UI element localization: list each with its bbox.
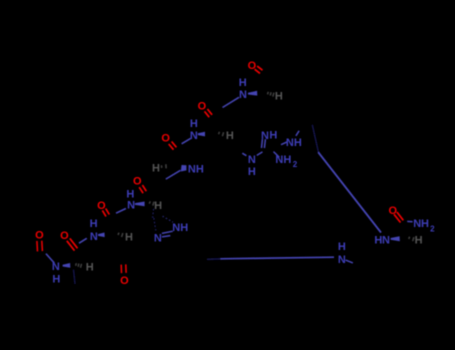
- double bond C9=O9: [394, 214, 401, 222]
- svg-text:H: H: [338, 241, 346, 253]
- svg-text:N: N: [90, 231, 98, 243]
- wedge tip at N3: [181, 165, 187, 172]
- bond N1-C2 (half): [223, 97, 240, 107]
- hash bond CA5-H: [117, 233, 120, 235]
- svg-text:N: N: [154, 233, 162, 245]
- svg-text:2: 2: [430, 225, 435, 234]
- svg-text:H: H: [125, 231, 133, 243]
- wedge bond N2-CA2: [198, 132, 205, 137]
- hash bond CA7-H: [408, 237, 411, 239]
- svg-text:H: H: [86, 261, 94, 273]
- svg-text:H: H: [248, 166, 256, 178]
- svg-text:H: H: [154, 200, 162, 212]
- wedge bond N8-CA6: [63, 263, 71, 268]
- double bond C3=O3: [169, 144, 174, 150]
- wedge bond N1-CA1: [248, 91, 257, 96]
- svg-text:O: O: [389, 205, 398, 217]
- double bond N5=C5 (imidazole): [162, 231, 173, 233]
- svg-text:H: H: [283, 154, 291, 166]
- svg-text:N: N: [127, 200, 135, 212]
- bond C5-N4 (half): [116, 209, 126, 214]
- double bond C5=O5: [102, 210, 106, 216]
- double bond C8=O8 (side chain): [125, 264, 127, 273]
- svg-text:H: H: [415, 235, 423, 247]
- svg-text:N: N: [413, 218, 421, 230]
- bond N12-CD2 (half): [296, 131, 299, 136]
- hash bond CA1-H: [267, 92, 270, 95]
- svg-text:O: O: [161, 133, 170, 145]
- svg-text:N: N: [239, 89, 247, 101]
- wedge bond N4-CA4: [135, 202, 145, 207]
- svg-text:N: N: [248, 154, 256, 166]
- svg-text:H: H: [152, 163, 160, 175]
- svg-text:N: N: [338, 254, 346, 266]
- svg-text:O: O: [97, 200, 106, 212]
- bond N2-C3 (half): [182, 138, 191, 143]
- bond C7-N8 (half): [46, 254, 54, 263]
- bond CA6-CB6 (faint): [74, 270, 76, 285]
- bond N9-CZ (half): [257, 152, 263, 156]
- bond CG-NE ring closure (faint): [163, 216, 174, 222]
- svg-text:N: N: [382, 235, 390, 247]
- svg-text:H: H: [294, 137, 302, 149]
- svg-text:N: N: [188, 163, 196, 175]
- svg-text:N: N: [275, 154, 283, 166]
- bond C9-N15 (half): [407, 220, 412, 222]
- bond CX upper half (faint): [312, 125, 318, 152]
- bottom long bond to N14 (bright): [221, 257, 335, 259]
- svg-text:H: H: [239, 77, 247, 89]
- svg-text:H: H: [190, 118, 198, 130]
- hash bond CA2-H: [218, 132, 221, 134]
- bond CZ-N12 (half): [281, 142, 287, 145]
- svg-text:H: H: [275, 91, 283, 103]
- double bond C1=O1: [255, 69, 260, 73]
- svg-text:O: O: [120, 275, 129, 287]
- svg-text:O: O: [198, 101, 207, 113]
- svg-text:H: H: [52, 274, 60, 286]
- svg-text:N: N: [52, 261, 60, 273]
- svg-text:N: N: [172, 222, 180, 234]
- svg-text:2: 2: [293, 160, 298, 169]
- double bond C7=O6 (vertical): [36, 241, 39, 252]
- bond CZ-N11 (half): [274, 152, 280, 158]
- svg-text:N: N: [286, 137, 294, 149]
- svg-text:H: H: [180, 222, 188, 234]
- hash bond CA4-H: [148, 201, 151, 203]
- double bond C6=O7: [67, 241, 75, 251]
- bond N14-C (half): [346, 260, 353, 263]
- svg-text:H: H: [421, 218, 429, 230]
- wedge bond N7-CA5: [98, 233, 105, 238]
- svg-text:H: H: [90, 218, 98, 230]
- bond CB4-CG (imidazole, faint): [153, 209, 154, 219]
- bond CD-N9 (half): [242, 153, 246, 156]
- svg-text:H: H: [269, 130, 277, 142]
- double bond CZ=N10: [261, 139, 264, 148]
- double bond C4=O4: [139, 187, 143, 193]
- hash bond CA3-H: [161, 165, 163, 168]
- svg-text:O: O: [133, 176, 142, 188]
- svg-text:H: H: [226, 130, 234, 142]
- bond C6-N7 (half): [79, 238, 87, 243]
- svg-text:N: N: [190, 130, 198, 142]
- wedge bond N13-CA7: [391, 236, 400, 241]
- long bond to N13 (bright half): [318, 152, 381, 232]
- bond CG-ND (imidazole, faint): [154, 218, 156, 231]
- double bond C2=O2: [205, 111, 210, 117]
- svg-text:H: H: [196, 163, 204, 175]
- bond CA3-N3 (tapered): [166, 170, 181, 179]
- hash bond CA6-H: [75, 263, 78, 266]
- svg-text:O: O: [60, 230, 69, 242]
- svg-text:O: O: [35, 230, 44, 242]
- bottom long bond left part (faint): [207, 258, 222, 261]
